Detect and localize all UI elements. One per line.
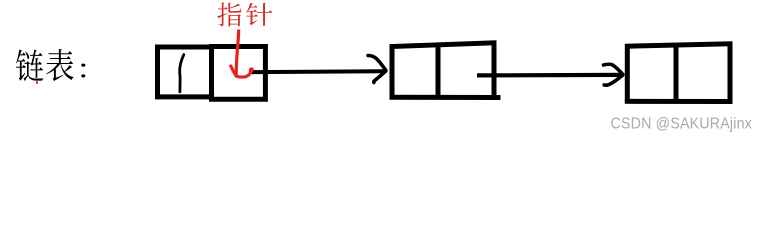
node N1 left cell (data field) bbox=[158, 47, 212, 97]
wire: arrow 2 stem from N2.next to N3 bbox=[477, 73, 623, 78]
node N1 right cell (next-pointer field) bbox=[209, 47, 265, 100]
arrow 1 head bbox=[368, 55, 386, 82]
red pointer arrow stem bbox=[236, 30, 239, 76]
label text "链" (heading "链表：") bbox=[16, 50, 43, 82]
node N3 divider bbox=[674, 45, 679, 102]
svg-text:CSDN @SAKURAjinx: CSDN @SAKURAjinx bbox=[611, 116, 753, 133]
label text "指" (red "指针" pointer label) bbox=[217, 2, 241, 26]
arrow 2 head bbox=[604, 64, 623, 85]
node N2 bottom edge bbox=[390, 95, 501, 100]
wire: arrow 1 stem from N1.next to N2 bbox=[249, 71, 386, 72]
node N3 outline bbox=[627, 44, 730, 101]
node N2 outline bbox=[392, 43, 494, 97]
node N1 data squiggle bbox=[180, 55, 184, 92]
red hook end blob bbox=[249, 67, 254, 72]
red pointer tail hook bbox=[236, 70, 251, 77]
red pointer arrowhead barb bbox=[231, 66, 236, 76]
node N2 divider bbox=[436, 45, 441, 98]
label text "针" bbox=[246, 3, 272, 26]
tiny red speck under 链 bbox=[36, 81, 38, 84]
label text "表" bbox=[46, 49, 73, 81]
node N3 bottom edge bbox=[625, 99, 733, 104]
label text "：" bbox=[81, 63, 85, 77]
node N1 divider bbox=[209, 45, 214, 100]
